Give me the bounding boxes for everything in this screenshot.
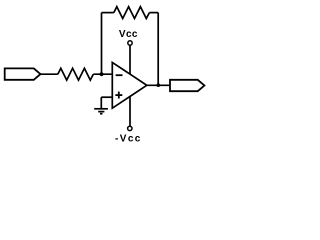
- resistor R2: [114, 7, 150, 19]
- wire: [147, 84, 170, 86]
- wire: [149, 12, 158, 14]
- svg-text:Vcc: Vcc: [119, 29, 138, 40]
- node A: [100, 72, 104, 76]
- Vcc terminal: [128, 41, 132, 45]
- input terminal J1: [5, 68, 41, 79]
- op-amp U1: [112, 62, 147, 108]
- resistor R1: [58, 68, 94, 80]
- svg-text:-Vcc: -Vcc: [115, 134, 142, 145]
- node B: [157, 83, 161, 87]
- wire: [157, 13, 159, 86]
- ground: [94, 97, 108, 114]
- wire: [93, 73, 112, 75]
- wire: [101, 96, 112, 98]
- wire: [101, 13, 103, 75]
- -Vcc terminal: [128, 126, 132, 130]
- output terminal J2: [170, 80, 204, 91]
- wire: [102, 12, 114, 14]
- wire: [129, 45, 131, 74]
- wire: [129, 96, 131, 126]
- wire: [40, 73, 57, 75]
